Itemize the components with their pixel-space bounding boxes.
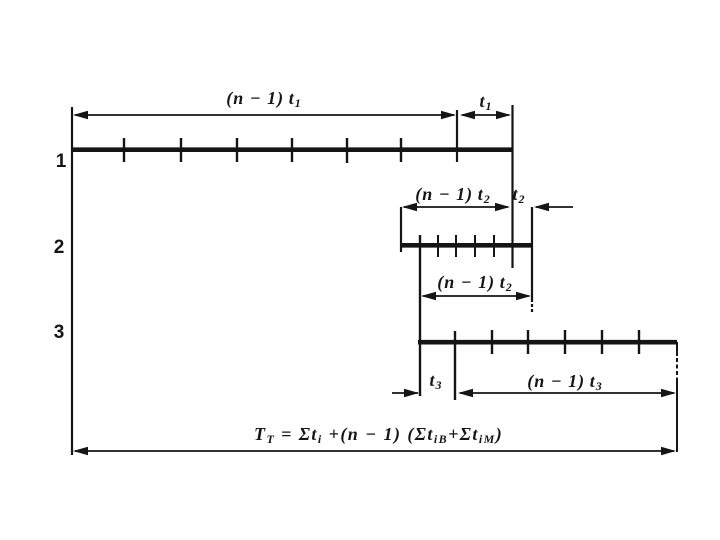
svg-text:TT = Σti +(n − 1) (ΣtiB+ΣtiM): TT = Σti +(n − 1) (ΣtiB+ΣtiM) bbox=[254, 424, 503, 446]
svg-text:(n − 1) t1: (n − 1) t1 bbox=[226, 88, 302, 110]
svg-text:(n − 1) t3: (n − 1) t3 bbox=[527, 371, 603, 393]
svg-text:1: 1 bbox=[56, 151, 67, 172]
svg-text:(n − 1) t2: (n − 1) t2 bbox=[415, 184, 491, 206]
svg-text:2: 2 bbox=[54, 237, 65, 258]
svg-text:3: 3 bbox=[54, 322, 65, 343]
svg-text:(n − 1) t2: (n − 1) t2 bbox=[437, 272, 513, 294]
